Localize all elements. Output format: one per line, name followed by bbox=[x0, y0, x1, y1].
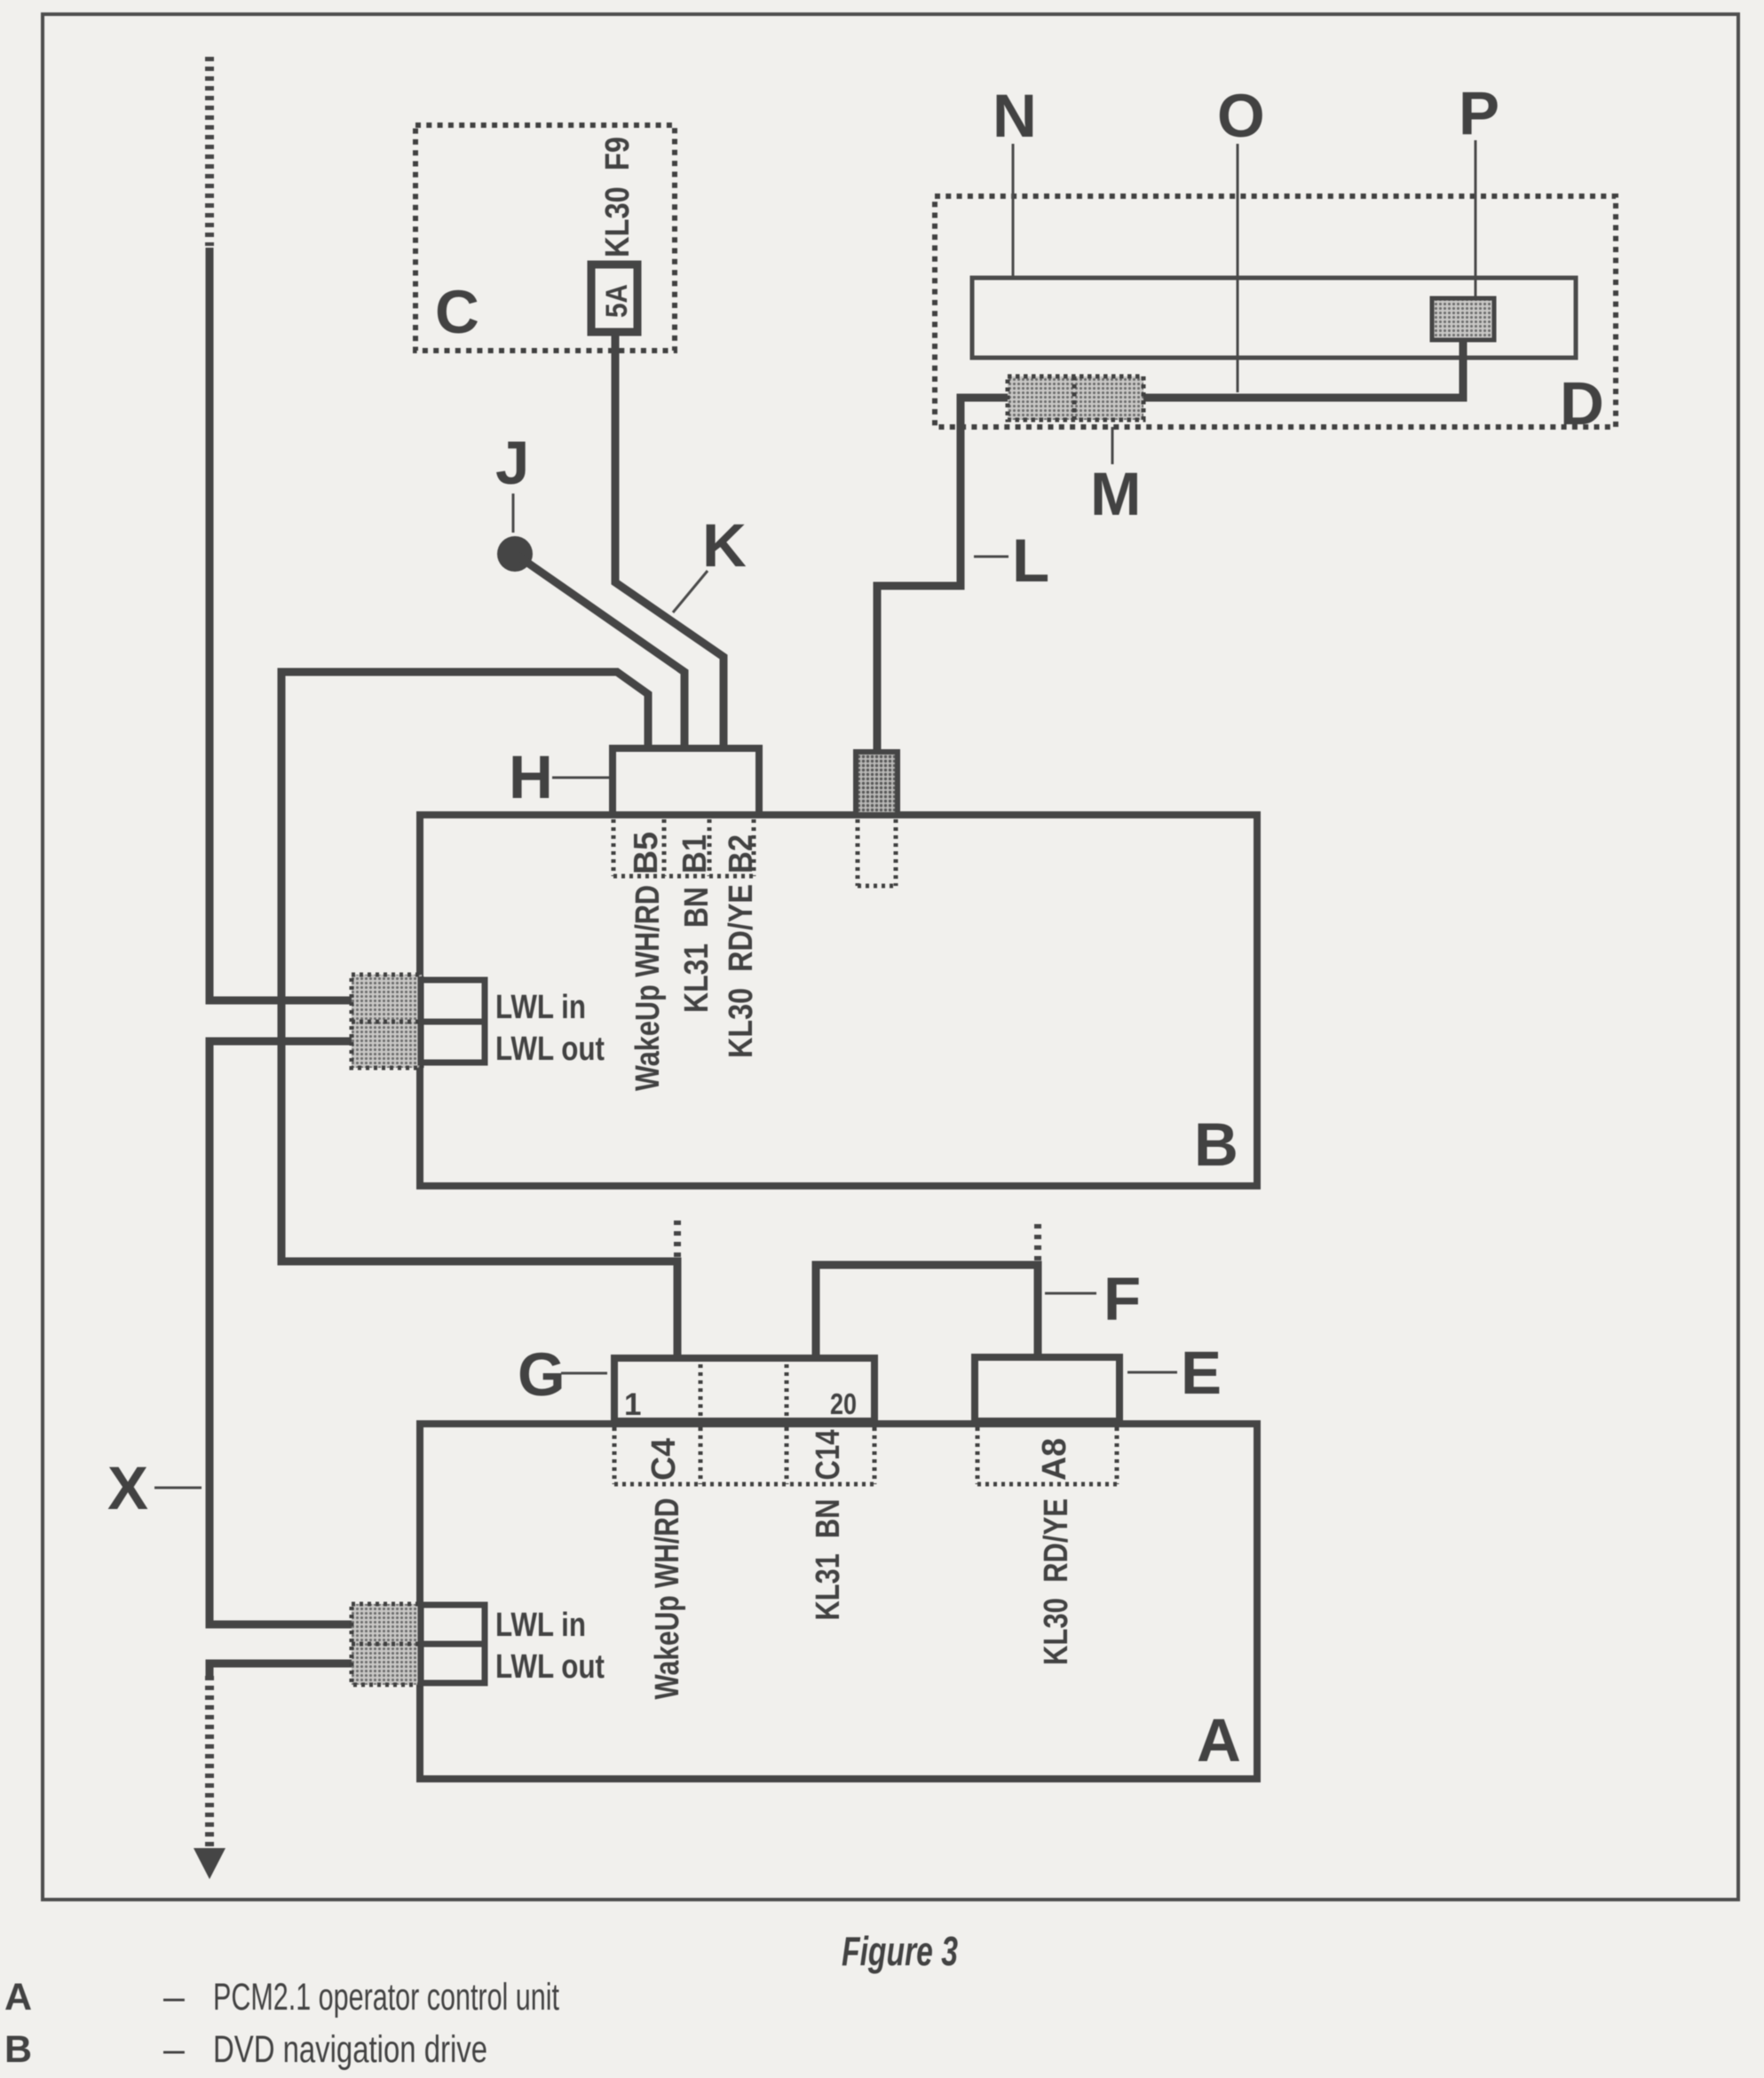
svg-text:N: N bbox=[993, 82, 1037, 150]
connector M (gray dotted pair) bbox=[1008, 376, 1143, 420]
svg-text:C14: C14 bbox=[810, 1430, 847, 1481]
svg-text:X: X bbox=[107, 1454, 148, 1522]
svg-text:WakeUp WH/RD: WakeUp WH/RD bbox=[629, 885, 667, 1091]
wire A LWL out down bbox=[210, 1663, 355, 1678]
svg-text:B: B bbox=[4, 2028, 32, 2071]
LWL in cell A bbox=[421, 1605, 485, 1644]
svg-text:KL31 BN: KL31 BN bbox=[678, 887, 716, 1013]
wire X ring dashed top bbox=[205, 57, 214, 246]
leader O bbox=[1237, 144, 1239, 392]
svg-text:A: A bbox=[1197, 1706, 1241, 1774]
svg-text:H: H bbox=[509, 743, 553, 811]
divider in M bbox=[1072, 376, 1077, 420]
leader L bbox=[974, 556, 1009, 558]
wire L: M to B connector bbox=[877, 398, 1008, 752]
svg-text:KL30 RD/YE: KL30 RD/YE bbox=[1038, 1498, 1075, 1665]
svg-text:J: J bbox=[495, 429, 529, 497]
connector G box bbox=[614, 1358, 874, 1421]
svg-text:LWL out: LWL out bbox=[495, 1648, 605, 1686]
wire fuse to H pin B2 bbox=[615, 332, 724, 748]
wire F net: G pin 20 to E bbox=[816, 1265, 1038, 1359]
svg-text:–: – bbox=[163, 2028, 185, 2071]
svg-text:WakeUp WH/RD: WakeUp WH/RD bbox=[649, 1498, 686, 1700]
svg-text:D: D bbox=[1560, 369, 1604, 438]
LWL gray connector on B bbox=[352, 975, 422, 1068]
wire A LWL out dashed continuation bbox=[205, 1676, 214, 1846]
connector P bbox=[1432, 298, 1494, 340]
svg-text:DVD navigation drive: DVD navigation drive bbox=[213, 2028, 487, 2071]
svg-text:–: – bbox=[163, 1976, 185, 2019]
svg-text:K: K bbox=[702, 511, 747, 580]
leader N bbox=[1012, 144, 1015, 276]
LWL out cell B bbox=[421, 1022, 485, 1063]
connector on B top (gray, from L) bbox=[856, 752, 898, 815]
fuse F9 5A bbox=[591, 265, 637, 332]
dotted pin cells below H bbox=[613, 819, 754, 876]
wire B LWL out to A LWL in bbox=[210, 1041, 355, 1624]
dotted divider across gray LWL connector B bbox=[352, 1020, 421, 1024]
leader P bbox=[1475, 140, 1477, 296]
svg-text:20: 20 bbox=[830, 1387, 857, 1420]
svg-text:5A: 5A bbox=[600, 284, 634, 318]
connector H box bbox=[613, 748, 759, 815]
dotted stub above G pin 1 corner bbox=[674, 1214, 681, 1257]
svg-text:LWL out: LWL out bbox=[495, 1031, 605, 1068]
svg-text:KL31 BN: KL31 BN bbox=[810, 1499, 847, 1621]
box B (DVD navigation drive) bbox=[420, 815, 1257, 1186]
svg-text:F: F bbox=[1103, 1265, 1141, 1333]
box D dotted (CD changer) bbox=[935, 196, 1616, 427]
connector E box bbox=[975, 1357, 1119, 1421]
svg-text:E: E bbox=[1181, 1339, 1222, 1407]
leader G bbox=[561, 1372, 607, 1375]
svg-text:A8: A8 bbox=[1036, 1438, 1073, 1481]
svg-text:B2: B2 bbox=[723, 834, 760, 873]
svg-text:LWL in: LWL in bbox=[495, 989, 586, 1026]
box C dotted (fuse box) bbox=[415, 125, 675, 351]
arrow head bbox=[194, 1848, 225, 1879]
svg-text:L: L bbox=[1012, 526, 1049, 595]
leader J bbox=[512, 494, 515, 533]
LWL gray connector on A bbox=[352, 1604, 422, 1685]
svg-text:B5: B5 bbox=[628, 832, 665, 874]
svg-text:B: B bbox=[1194, 1110, 1238, 1179]
svg-text:1: 1 bbox=[624, 1387, 641, 1422]
wire J to H pin B1 bbox=[515, 554, 684, 748]
svg-text:Figure 3: Figure 3 bbox=[842, 1928, 958, 1974]
leader X bbox=[154, 1487, 202, 1489]
svg-text:PCM2.1 operator control unit: PCM2.1 operator control unit bbox=[213, 1976, 559, 2019]
dotted divider across gray LWL connector A bbox=[352, 1642, 421, 1647]
dotted stub above E corner bbox=[1034, 1218, 1041, 1260]
svg-text:A: A bbox=[4, 1976, 32, 2019]
box A (PCM2.1 operator control unit) bbox=[420, 1424, 1257, 1779]
leader E bbox=[1127, 1371, 1177, 1374]
svg-text:KL30 F9: KL30 F9 bbox=[599, 137, 637, 257]
leader H bbox=[552, 777, 609, 779]
wire O: M to P bbox=[1143, 340, 1463, 398]
svg-text:KL30 RD/YE: KL30 RD/YE bbox=[723, 884, 760, 1058]
LWL in cell B bbox=[421, 980, 485, 1022]
dotted dividers in G bbox=[700, 1364, 787, 1418]
leader K bbox=[673, 571, 708, 612]
node J (junction dot) bbox=[497, 536, 533, 572]
dotted pin cells below G bbox=[614, 1427, 874, 1484]
wire X ring solid into B LWL in bbox=[210, 248, 355, 1000]
svg-text:C4: C4 bbox=[645, 1438, 683, 1481]
wire WakeUp net: H pin B5 to G pin 1 bbox=[281, 672, 677, 1359]
leader M bbox=[1111, 427, 1114, 464]
inner unit N rectangle bbox=[972, 278, 1576, 358]
svg-text:P: P bbox=[1459, 79, 1499, 147]
svg-text:B1: B1 bbox=[676, 834, 714, 873]
svg-text:C: C bbox=[435, 278, 479, 346]
svg-text:G: G bbox=[518, 1340, 566, 1409]
leader F bbox=[1045, 1292, 1096, 1295]
dotted pin cells below E bbox=[977, 1427, 1117, 1484]
svg-text:O: O bbox=[1217, 82, 1265, 150]
dotted socket below gray connector bbox=[858, 819, 896, 886]
svg-text:LWL in: LWL in bbox=[495, 1607, 586, 1644]
svg-text:M: M bbox=[1090, 460, 1141, 528]
LWL out cell A bbox=[421, 1644, 485, 1683]
